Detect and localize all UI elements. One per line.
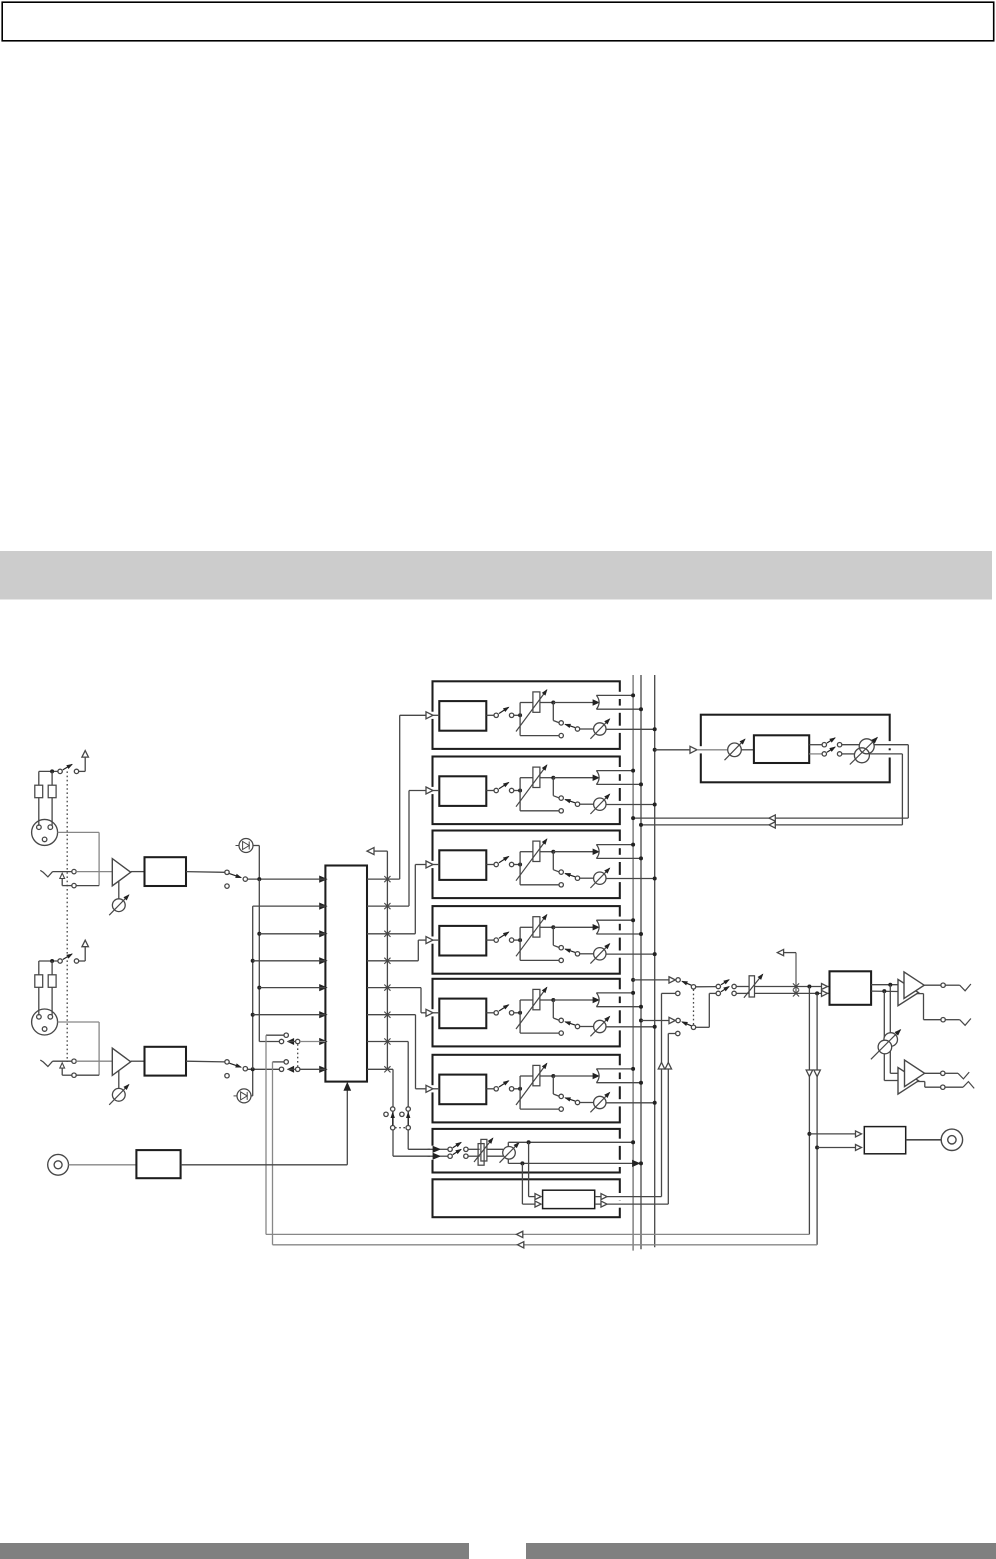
wire to matrix input 4 (253, 960, 326, 962)
strip 5 aux output wire (606, 1026, 655, 1028)
channel 2 signal LED (237, 1089, 251, 1103)
wire (69, 1164, 137, 1166)
switch gang link (395, 1127, 406, 1129)
master source switch R (676, 1018, 680, 1022)
channel 1 pad resistor 1 (38, 771, 40, 785)
strip 4 input arrow (426, 939, 437, 941)
tape return R output wire (507, 1159, 509, 1164)
phones out L jack (925, 1072, 941, 1074)
strip 5 EQ block (439, 999, 486, 1029)
lamp connector (906, 1139, 942, 1141)
channel 2 wire to matrix input 8 (248, 1068, 280, 1070)
strip 2 on/off switch (486, 790, 494, 792)
channel 1 preamp block (131, 871, 145, 873)
main out L (871, 984, 904, 986)
strip 4 pan control (551, 925, 555, 929)
left mix bus (L) (632, 675, 634, 1251)
lamp driver block (864, 1127, 905, 1154)
main out R jack (917, 993, 924, 995)
tape return balance pot (487, 1148, 503, 1150)
master source switch L (676, 978, 680, 982)
aux bus feed to effects (653, 748, 657, 752)
channel 1 distribution line (258, 879, 260, 1041)
effects section outer box (701, 715, 890, 783)
right mix bus (R) (640, 675, 642, 1249)
processor strip outer box (433, 1179, 620, 1217)
strip 5 pan R output wire (596, 1006, 641, 1008)
channel 1 jack NC contact (60, 873, 65, 878)
tape return select switch A (391, 1107, 395, 1111)
channel 1 wire to matrix input 1 (248, 878, 326, 880)
strip 1 pan L output wire (596, 694, 633, 696)
strip 5 pan control (551, 998, 555, 1002)
strip 4 on/off switch (486, 939, 494, 941)
strip 5 pre/post switch (552, 1000, 554, 1018)
strip 1 fader (518, 713, 522, 717)
strip 2 input arrow (426, 790, 437, 792)
R bus to master switch (639, 1019, 643, 1023)
strip 6 pan R output wire (596, 1082, 641, 1084)
strip 5 fader (518, 1011, 522, 1015)
matrix output 7 wire (367, 1041, 408, 1043)
strip 6 pan L output wire (596, 1068, 633, 1070)
tape return L output wire (507, 1142, 509, 1147)
channel 2 line input jack (40, 1060, 52, 1067)
channel 2 phantom arrow (84, 944, 86, 961)
processor block (543, 1190, 595, 1208)
record out tap R (816, 993, 818, 1244)
strip 4 pan R output wire (596, 933, 641, 935)
strip 3 pan control (551, 850, 555, 854)
channel 1 line input jack (40, 870, 52, 877)
channel 2 pad resistor 1 (38, 961, 40, 975)
matrix output 3 wire (367, 933, 415, 935)
matrix output 1 wire (367, 878, 400, 880)
channel 1 pad resistor 2 (51, 771, 53, 785)
switch gang link (693, 989, 695, 1024)
effects return wire L (874, 744, 908, 746)
channel strip 2 outer box (433, 757, 620, 825)
phones level pot (stereo) (889, 985, 891, 1074)
strip 6 aux send pot (580, 1102, 594, 1104)
strip 5 input arrow (426, 1012, 437, 1014)
matrix input 8 source switch (279, 1067, 283, 1071)
tape return select switch B (406, 1107, 410, 1111)
effects out switch R (809, 753, 822, 755)
strip 1 aux send pot (580, 728, 594, 730)
channel 2 XLR wire (58, 1021, 100, 1023)
channel 1 signal LED (239, 839, 253, 853)
strip 6 on/off switch (486, 1088, 494, 1090)
strip 3 pan R output wire (596, 857, 641, 859)
aux send bus (654, 675, 656, 1247)
tape feedback wire L (266, 1233, 810, 1235)
strip 1 pre/post switch (552, 703, 554, 721)
effects out switch L (809, 744, 822, 746)
footswitch jack (48, 1154, 69, 1175)
effects return wire R (869, 753, 902, 755)
strip 4 pre/post switch (552, 927, 554, 945)
strip 4 EQ block (439, 926, 486, 956)
phones out R jack (917, 1081, 925, 1083)
channel 1 XLR connector (32, 819, 58, 845)
phones amplifier pair (890, 1072, 904, 1074)
strip 3 EQ block (439, 850, 486, 880)
tape return input arrows (428, 1148, 441, 1150)
strip 5 on/off switch (486, 1012, 494, 1014)
main out L jack (924, 984, 941, 986)
channel strip 1 outer box (433, 681, 620, 749)
strip 6 aux output wire (606, 1102, 655, 1104)
master L wire (755, 986, 830, 988)
wire to matrix input 2 (253, 905, 326, 907)
strip 2 pan L output wire (596, 770, 633, 772)
tape feedback wire R (273, 1244, 818, 1246)
master insert block (830, 971, 872, 1005)
processor return stub R (668, 1033, 675, 1035)
main out R (871, 990, 898, 992)
channel 2 preamp block (131, 1060, 145, 1062)
master mute switch L (696, 986, 716, 988)
tape return switch R (440, 1155, 448, 1157)
matrix output 2 wire (367, 905, 409, 907)
strip 4 pan L output wire (596, 919, 633, 921)
channel 1 jack switch contacts (72, 869, 76, 873)
meter/lamp block feed L (809, 1133, 858, 1135)
effects stereo return pot (859, 739, 874, 754)
channel 2 pad resistor 2 (51, 961, 53, 975)
matrix input arrows (320, 876, 327, 882)
solo bus vertical with crossing marks (386, 851, 388, 1069)
strip 5 aux send pot (580, 1026, 594, 1028)
channel 2 distribution line (252, 906, 254, 1069)
feed wires into processor (528, 1142, 530, 1196)
channel 2 gain pot (118, 1071, 120, 1089)
tape return switch L (440, 1148, 448, 1150)
channel 2 jack NC contact (60, 1063, 65, 1068)
wire to matrix input 6 (253, 1014, 326, 1016)
strip 4 aux send pot (580, 953, 594, 955)
channel 1 pad switch (39, 770, 58, 772)
strip 1 pan control (551, 701, 555, 705)
strip 2 aux send pot (580, 803, 594, 805)
strip 2 pan R output wire (596, 783, 641, 785)
channel 2 XLR connector (32, 1009, 58, 1035)
tape return strip outer box (433, 1129, 620, 1173)
strip 6 input arrow (426, 1088, 437, 1090)
wire to matrix input 3 (259, 933, 325, 935)
jack switch gang link (66, 771, 68, 1062)
tape return stereo level control (468, 1148, 480, 1150)
processor return riser L (661, 993, 663, 1196)
matrix output 8 wire (367, 1068, 393, 1070)
strip 2 pre/post switch (552, 778, 554, 796)
master stereo fader (736, 986, 749, 988)
matrix output 5 wire (367, 987, 421, 989)
strip 3 pre/post switch (552, 852, 554, 870)
strip 3 on/off switch (486, 864, 494, 866)
tape return wire R (272, 1062, 274, 1245)
channel 2 pad switch (39, 960, 58, 962)
strip 1 aux output wire (606, 728, 655, 730)
strip 2 pan control (551, 776, 555, 780)
effects processor block (741, 749, 754, 751)
strip 3 aux send pot (580, 877, 594, 879)
strip 5 pan L output wire (596, 992, 633, 994)
switch gang link (297, 1044, 299, 1066)
strip 3 aux output wire (606, 878, 655, 880)
routing matrix block (325, 866, 367, 1082)
channel strip 4 outer box (433, 906, 620, 974)
processor output wires (595, 1196, 662, 1198)
master mute switch R (696, 1026, 710, 1028)
channel 1 XLR wire (58, 831, 100, 833)
record out tap L (808, 987, 810, 1235)
strip 3 pan L output wire (596, 844, 633, 846)
matrix input 7 source switch (259, 1041, 279, 1043)
strip 1 on/off switch (486, 714, 494, 716)
page header box (2, 2, 994, 41)
footer bar left (0, 1543, 469, 1559)
strip 4 fader (518, 938, 522, 942)
strip 1 input arrow (426, 714, 437, 716)
strip 2 aux output wire (606, 804, 655, 806)
strip 3 fader (518, 863, 522, 867)
strip 6 EQ block (439, 1075, 486, 1105)
strip 6 fader (518, 1087, 522, 1091)
channel strip 3 outer box (433, 831, 620, 899)
strip 1 pan R output wire (596, 708, 641, 710)
main output amplifier pair (898, 979, 919, 1005)
tape return wire L (265, 1035, 267, 1234)
solo tap (795, 953, 797, 994)
strip 6 pre/post switch (552, 1076, 554, 1094)
strip 2 EQ block (439, 776, 486, 806)
strip 6 pan control (551, 1074, 555, 1078)
channel 1 routing switch (186, 871, 225, 874)
strip 2 fader (518, 789, 522, 793)
master R wire (755, 992, 830, 994)
strip 4 aux output wire (606, 953, 655, 955)
L bus to master switch (631, 978, 635, 982)
channel strip 6 outer box (433, 1055, 620, 1123)
channel 2 preamp (112, 1048, 130, 1075)
grey section title bar (0, 551, 992, 600)
strip 1 EQ block (439, 701, 486, 731)
processor return stub L (662, 992, 676, 994)
meter/lamp block feed R (817, 1147, 858, 1149)
wire to matrix bottom (181, 1164, 348, 1166)
channel 1 gain pot (118, 881, 120, 899)
processor return riser R (667, 1034, 669, 1205)
channel 1 preamp (112, 859, 130, 886)
channel 2 routing switch (186, 1060, 225, 1063)
channel strip 5 outer box (433, 979, 620, 1047)
matrix output 4 wire (367, 960, 418, 962)
strip 3 input arrow (426, 864, 437, 866)
footswitch logic block (136, 1150, 180, 1178)
channel 1 phantom arrow (84, 755, 86, 772)
matrix output 6 wire (367, 1014, 416, 1016)
effects send pot (697, 749, 728, 751)
footer bar right (526, 1543, 996, 1559)
wire to matrix input 5 (259, 987, 325, 989)
channel 2 jack switch contacts (72, 1059, 76, 1063)
